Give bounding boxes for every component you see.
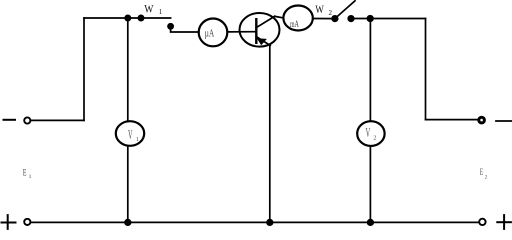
node (V2 to bottom rail)	[368, 220, 374, 226]
wire (V2 branch upper)	[369, 19, 371, 122]
svg-text:mA: mA	[290, 20, 299, 30]
terminal (top-left)	[24, 117, 30, 123]
wire (riser to top-right terminal)	[426, 119, 479, 121]
svg-text:2: 2	[485, 175, 488, 181]
svg-text:µA: µA	[205, 28, 215, 39]
wire (microammeter to base)	[227, 31, 256, 33]
transistor Q1	[240, 13, 280, 47]
svg-text:E: E	[23, 167, 27, 177]
switch W1 lower contact	[168, 24, 173, 29]
svg-text:2: 2	[373, 135, 376, 142]
label E2	[480, 167, 488, 181]
minus sign (right, E2 negative)	[496, 120, 512, 122]
wire (top-left terminal to riser)	[31, 119, 84, 121]
node (emitter to bottom rail)	[267, 220, 273, 226]
ammeter uA	[199, 19, 228, 47]
switch W1 left contact	[138, 15, 143, 20]
ammeter mA	[283, 6, 312, 31]
wire (V1 branch upper)	[127, 18, 129, 121]
svg-text:W: W	[144, 3, 153, 15]
svg-text:E: E	[480, 167, 484, 177]
svg-text:1: 1	[136, 136, 139, 143]
wire (top rail right)	[351, 18, 426, 20]
switch W2 blade (open)	[335, 1, 355, 19]
terminal (top-right)	[479, 117, 485, 123]
svg-text:V: V	[366, 125, 371, 140]
wire (right riser)	[425, 19, 427, 120]
svg-text:W: W	[315, 4, 324, 16]
node (junction to V1)	[125, 15, 130, 20]
voltmeter V1	[116, 121, 144, 146]
voltmeter V2	[357, 121, 384, 146]
switch W2 right contact	[348, 16, 354, 22]
wire (collector to milliammeter)	[275, 16, 284, 18]
label W2	[315, 4, 332, 17]
switch W2 left contact	[332, 16, 338, 22]
wire (top rail left with W1 blade)	[84, 17, 171, 19]
node (junction to V2)	[367, 16, 373, 22]
wire (W1 contact down and right to microammeter)	[171, 27, 199, 32]
wire (milliammeter to W2)	[313, 18, 335, 20]
svg-text:1: 1	[159, 8, 163, 16]
wire (emitter down to bottom rail)	[269, 45, 271, 222]
wire (bottom rail)	[31, 221, 479, 223]
plus sign (right, E2 positive)	[497, 215, 511, 229]
plus sign (left, E1 positive)	[2, 215, 16, 229]
wire (V1 branch lower)	[127, 146, 129, 223]
minus sign (left, E1 negative)	[4, 119, 16, 121]
label W1	[144, 3, 163, 16]
svg-text:1: 1	[29, 174, 32, 180]
wire (left riser)	[83, 18, 85, 120]
node (V1 to bottom rail)	[125, 220, 131, 226]
label E1	[23, 167, 32, 180]
wire (V2 branch lower)	[369, 146, 371, 222]
svg-text:2: 2	[329, 9, 333, 17]
svg-text:V: V	[128, 128, 133, 143]
terminal (bottom-left)	[24, 219, 30, 225]
terminal (bottom-right)	[479, 219, 485, 225]
